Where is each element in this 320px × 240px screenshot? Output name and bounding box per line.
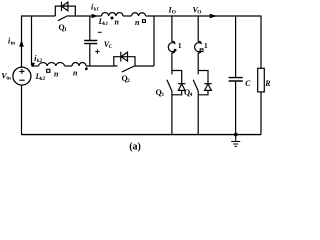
wire: Q2 to corner (134, 65, 154, 67)
label IO (168, 6, 176, 16)
label Lk1 (98, 17, 109, 27)
svg-text:(a): (a) (129, 141, 141, 152)
wire: Lk2 line start (32, 65, 39, 67)
wire: D4 bottom lead back to main (198, 90, 208, 94)
wire: output capacitor branch lower (235, 82, 237, 135)
ground junction dot (234, 133, 238, 137)
inductor Lk2 winding 1 (n turns) (39, 63, 65, 66)
wire: right edge down to resistor (260, 16, 262, 69)
label i_k2 (34, 54, 42, 64)
polarity square Lk1 winding 2 (143, 20, 146, 23)
diode D1 cathode bar (61, 2, 63, 11)
source Vin circle (13, 67, 31, 85)
inductor Lk1 winding 2 (n turns) (132, 13, 146, 16)
label minus (Vc) (98, 31, 102, 33)
capacitor C plates (229, 78, 243, 81)
switch Q2 blade (122, 66, 134, 72)
wire: D3 bottom lead back to main (172, 90, 182, 94)
source Vin minus sign (19, 79, 24, 81)
svg-text:n: n (73, 69, 78, 78)
label i_k1 (91, 3, 99, 13)
svg-text:4: 4 (190, 92, 193, 98)
inductor Lk1 winding 1 (n turns) (102, 13, 124, 16)
diode D2 cathode bar (120, 52, 122, 62)
svg-text:k2: k2 (40, 76, 46, 82)
diode D1 (Q1 anti-parallel) branch wires (55, 6, 75, 16)
current arrow IO on output rail (210, 14, 217, 18)
wire: output top rail (146, 15, 261, 17)
wire: left secondary from rail + 1-turn winding (168, 16, 175, 75)
capacitor Vc plates (84, 41, 97, 44)
svg-text:R: R (264, 79, 270, 88)
wire: Vin bottom lead (21, 85, 23, 135)
polarity dot Lk2 winding 2 (85, 67, 88, 70)
wire: Lk2 to Q2 (86, 65, 118, 67)
switch Q3 blade (167, 80, 172, 91)
svg-text:1: 1 (64, 27, 67, 33)
wire: right secondary from rail + 1-turn winding (195, 16, 202, 75)
source Vin plus sign (19, 69, 24, 74)
wire: Lk2 between windings (65, 65, 73, 67)
svg-text:n: n (54, 70, 59, 79)
wire: dropper from rail to ik2 corner (31, 16, 33, 66)
label Q2 (122, 74, 131, 84)
diode D2 (Q2 anti-parallel) branch wires (114, 57, 135, 66)
svg-text:1: 1 (178, 41, 182, 50)
label Q1 (59, 23, 68, 33)
svg-text:C: C (109, 44, 113, 50)
polarity dot (left secondary) (174, 49, 177, 52)
wire: clamp capacitor branch upper (89, 16, 91, 40)
svg-text:n: n (135, 18, 140, 27)
polarity dot Lk1 winding 1 (111, 17, 114, 20)
current arrow i_k1 (92, 14, 98, 18)
polarity square Lk2 winding 1 (47, 69, 50, 72)
wire: top rail from Q1 to Lk1 (68, 15, 102, 17)
svg-text:in: in (6, 76, 10, 82)
label Lk2 (35, 72, 46, 82)
label Q4 (184, 88, 193, 98)
wire: rail between Lk1 windings (123, 15, 132, 17)
svg-text:n: n (115, 18, 120, 27)
label VO (193, 6, 202, 16)
ground symbol (231, 135, 240, 147)
svg-text:1: 1 (204, 41, 208, 50)
diode D1 triangle (62, 2, 68, 11)
svg-text:2: 2 (127, 78, 130, 84)
switch Q4 blade (193, 80, 198, 91)
diode D4 triangle (205, 84, 212, 90)
wire: Q3 diode top stub (172, 71, 182, 84)
wire: corner up to top rail (153, 16, 155, 67)
resistor R body (258, 68, 265, 92)
wire: Q3 bottom to rail (171, 91, 173, 135)
diode D3 triangle (178, 84, 185, 90)
svg-text:3: 3 (161, 92, 164, 98)
svg-text:k1: k1 (103, 21, 109, 27)
wire: Vin positive lead up to top-left corner (21, 16, 23, 68)
wire: Q4 diode top stub (198, 71, 208, 84)
switch Q1 blade (58, 16, 68, 21)
diode D3 cathode bar (178, 83, 185, 85)
wire: clamp capacitor branch lower (89, 44, 91, 66)
wire: bottom rail (22, 134, 262, 136)
wire: top rail from left corner to Q1 (21, 15, 55, 17)
svg-text:C: C (245, 79, 251, 88)
label Q3 (156, 88, 165, 98)
wire: output capacitor branch upper (235, 16, 237, 78)
wire: Q4 bottom to rail (197, 91, 199, 135)
diode D2 triangle (121, 52, 127, 61)
current arrow i_k2 (down) (31, 63, 35, 68)
svg-text:O: O (172, 10, 176, 16)
label plus (Vc) (95, 49, 99, 53)
label Vc (104, 40, 113, 50)
label Vin (1, 71, 11, 81)
current arrow i_in (up) (19, 40, 24, 47)
wire: resistor bottom lead (260, 92, 262, 135)
svg-text:k1: k1 (94, 7, 100, 13)
diode D4 cathode bar (204, 83, 211, 85)
svg-text:O: O (197, 10, 201, 16)
label i_in (8, 37, 15, 47)
polarity square (right secondary) (200, 49, 203, 52)
inductor Lk2 winding 2 (n turns) (72, 63, 86, 67)
svg-text:in: in (11, 41, 15, 47)
